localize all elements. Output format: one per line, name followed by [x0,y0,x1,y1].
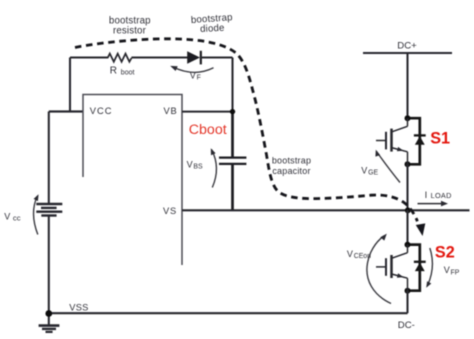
svg-text:capacitor: capacitor [272,166,310,176]
svg-text:cc: cc [13,213,21,222]
svg-text:diode: diode [200,23,225,35]
svg-text:resistor: resistor [113,26,147,37]
svg-text:V: V [4,211,10,221]
svg-text:GE: GE [368,170,378,177]
svg-text:DC+: DC+ [397,41,417,52]
svg-text:VCC: VCC [90,106,113,116]
svg-text:DC-: DC- [398,320,415,331]
svg-text:V: V [190,71,196,81]
svg-text:S2: S2 [435,244,455,262]
svg-text:FP: FP [451,269,460,276]
svg-text:I: I [425,190,428,200]
svg-text:V: V [187,159,193,169]
svg-text:R: R [110,65,117,76]
svg-text:CEon: CEon [354,253,371,260]
svg-text:VB: VB [164,106,178,116]
svg-text:bootstrap: bootstrap [272,156,311,166]
svg-text:LOAD: LOAD [431,191,452,200]
svg-text:VS: VS [163,206,177,216]
svg-text:BS: BS [193,164,203,171]
svg-text:V: V [361,165,367,175]
svg-text:Cboot: Cboot [189,122,227,138]
svg-text:V: V [444,265,450,275]
svg-text:F: F [197,75,201,82]
svg-text:V: V [347,249,353,259]
svg-text:VSS: VSS [69,302,88,312]
svg-text:boot: boot [121,69,135,76]
svg-text:S1: S1 [430,129,450,147]
